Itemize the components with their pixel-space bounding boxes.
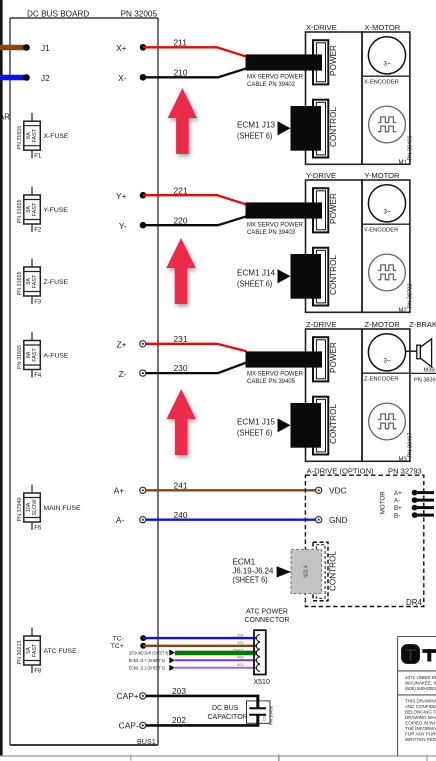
svg-text:CABLE PN 39402: CABLE PN 39402 xyxy=(247,82,296,88)
terminal J1 xyxy=(23,44,30,51)
svg-text:ECM1 J14: ECM1 J14 xyxy=(237,269,275,278)
wire 231 red Z+ xyxy=(146,344,247,351)
svg-text:X-: X- xyxy=(118,73,127,83)
arrow to Z control xyxy=(278,418,291,432)
A control connector dashed xyxy=(313,542,328,601)
svg-text:ECM1 J13: ECM1 J13 xyxy=(237,121,275,130)
svg-text:A-FUSE: A-FUSE xyxy=(44,352,69,359)
svg-text:POWER: POWER xyxy=(329,45,338,76)
svg-text:Y-DRIVE: Y-DRIVE xyxy=(306,171,336,180)
svg-text:PN 31655: PN 31655 xyxy=(17,345,23,369)
svg-text:SLOW: SLOW xyxy=(32,499,38,516)
svg-text:A+: A+ xyxy=(394,490,402,497)
connector X510 body xyxy=(254,630,266,674)
svg-text:FAST: FAST xyxy=(32,348,38,362)
svg-text:Z-DRIVE: Z-DRIVE xyxy=(306,320,336,329)
X-DRIVE box xyxy=(306,32,363,164)
Z CONTROL connector xyxy=(313,397,328,455)
svg-text:3~: 3~ xyxy=(383,209,391,216)
fuse F2 Y-FUSE xyxy=(17,187,68,234)
svg-text:A-DRIVE (OPTION): A-DRIVE (OPTION) xyxy=(307,466,375,475)
svg-text:A-: A- xyxy=(394,498,400,505)
wire 230 black Z- xyxy=(146,363,247,374)
svg-text:FAST: FAST xyxy=(32,643,38,657)
arrow ECM1 J1.7 xyxy=(169,657,175,663)
X encoder divider xyxy=(362,75,410,77)
svg-text:CONTROL: CONTROL xyxy=(329,404,338,444)
svg-text:M3B: M3B xyxy=(424,368,436,374)
svg-text:ECM1 J1.2 (SHEET 5): ECM1 J1.2 (SHEET 5) xyxy=(129,665,166,670)
X-MOTOR box xyxy=(362,32,410,164)
svg-text:DC BUS BOARD: DC BUS BOARD xyxy=(27,10,89,19)
X CONTROL connector xyxy=(313,100,328,158)
svg-text:FAST: FAST xyxy=(32,274,38,288)
arrow to A control xyxy=(277,566,291,577)
svg-text:X-FUSE: X-FUSE xyxy=(44,133,69,140)
Y CONTROL connector xyxy=(313,248,328,306)
motor wire node 3 xyxy=(412,505,418,511)
motor wire 4 xyxy=(415,514,434,517)
zone tick 2 xyxy=(278,755,280,761)
title block frame xyxy=(398,637,436,757)
svg-text:POWER: POWER xyxy=(329,193,338,224)
svg-text:408: 408 xyxy=(237,656,243,660)
svg-text:PN 37949: PN 37949 xyxy=(17,498,23,522)
svg-text:CABLE PN 39405: CABLE PN 39405 xyxy=(247,379,296,385)
Z POWER connector xyxy=(313,337,328,381)
svg-text:PN 38391: PN 38391 xyxy=(414,377,436,383)
wire 221 red Y+ xyxy=(143,195,247,205)
terminal TC+ xyxy=(140,643,146,649)
svg-text:PN 30468: PN 30468 xyxy=(269,705,274,725)
svg-text:PN 32793: PN 32793 xyxy=(388,466,422,475)
svg-text:Y-: Y- xyxy=(119,221,127,231)
motor wire 1 xyxy=(415,491,434,494)
svg-text:Z+: Z+ xyxy=(116,340,126,350)
svg-text:MX SERVO POWER: MX SERVO POWER xyxy=(247,74,304,80)
wire 402 violet xyxy=(175,667,257,669)
svg-text:CONTROL: CONTROL xyxy=(329,551,338,591)
svg-text:230: 230 xyxy=(174,363,188,373)
svg-text:(608) 849-8381 WWW.T: (608) 849-8381 WWW.T xyxy=(405,686,436,691)
Y control cable plug xyxy=(291,254,322,299)
DC BUS BOARD outline xyxy=(10,18,158,745)
terminal X- (solid) xyxy=(140,74,147,81)
red annotation arrow 1 xyxy=(168,88,197,154)
motor wire 3 xyxy=(415,506,434,509)
svg-text:(SHEET 6): (SHEET 6) xyxy=(232,576,268,585)
svg-text:POWER: POWER xyxy=(329,342,338,373)
svg-text:240: 240 xyxy=(174,510,188,520)
svg-text:J2: J2 xyxy=(41,74,50,83)
wire 220 black Y- xyxy=(143,216,247,225)
svg-text:FAST: FAST xyxy=(32,128,38,142)
svg-text:MAIN FUSE: MAIN FUSE xyxy=(44,505,81,512)
svg-text:3~: 3~ xyxy=(383,358,391,365)
svg-text:210: 210 xyxy=(174,67,188,77)
svg-text:402: 402 xyxy=(237,663,243,667)
svg-text:Z-: Z- xyxy=(119,369,127,379)
svg-text:CABLE PN 39403: CABLE PN 39403 xyxy=(247,230,296,236)
svg-text:PN 30213: PN 30213 xyxy=(17,641,23,665)
Y servo power cable xyxy=(246,202,323,218)
wire 205 brown TC+ xyxy=(143,645,256,647)
terminal Z- (ring) xyxy=(140,370,146,376)
X encoder symbol xyxy=(369,106,406,143)
svg-text:GND1: GND1 xyxy=(233,648,244,652)
connector X510 pins xyxy=(256,635,260,672)
terminal TC- xyxy=(140,635,146,641)
svg-text:CAP+: CAP+ xyxy=(117,691,139,701)
Y encoder divider xyxy=(362,223,410,225)
wire J1 brown DC bus input xyxy=(0,45,27,51)
svg-text:Z-MOTOR: Z-MOTOR xyxy=(365,320,401,329)
svg-text:COPIED IN WHOLE OR IN PART, NO: COPIED IN WHOLE OR IN PART, NOR xyxy=(405,721,436,726)
wire 241 brown A+ xyxy=(146,489,315,491)
terminal A+ (ring) xyxy=(140,487,146,493)
svg-text:202: 202 xyxy=(172,715,186,725)
svg-text:ECM1 J1.7 (SHEET 5): ECM1 J1.7 (SHEET 5) xyxy=(129,658,166,663)
Z encoder symbol xyxy=(369,403,406,440)
terminal Z+ (ring) xyxy=(140,341,146,347)
svg-text:CONNECTOR: CONNECTOR xyxy=(245,617,290,624)
svg-text:DC BUS: DC BUS xyxy=(212,705,239,712)
red annotation arrow 2 xyxy=(166,238,195,304)
svg-text:(SHEET 6): (SHEET 6) xyxy=(237,280,273,289)
wire 202 xyxy=(146,724,259,727)
svg-text:211: 211 xyxy=(174,37,188,47)
svg-text:241: 241 xyxy=(174,480,188,490)
wire 408 purple xyxy=(175,659,257,661)
drawing sheet left border bar xyxy=(0,0,3,756)
X control cable plug xyxy=(291,106,322,151)
svg-text:423.4: 423.4 xyxy=(304,565,310,578)
wire 211 red X+ xyxy=(143,47,247,57)
label DC BUS CAPACITOR xyxy=(208,705,248,721)
label ECM1 J14 (SHEET 6) xyxy=(237,269,275,289)
svg-text:Z-FUSE: Z-FUSE xyxy=(44,279,69,286)
svg-text:CONTROL: CONTROL xyxy=(329,255,338,295)
svg-text:Y-MOTOR: Y-MOTOR xyxy=(365,171,401,180)
svg-text:X510: X510 xyxy=(254,679,270,686)
Tormach wordmark T xyxy=(422,649,436,661)
terminal GND (ring) xyxy=(316,517,322,523)
svg-text:B-: B- xyxy=(394,513,400,520)
svg-text:GND: GND xyxy=(329,515,348,525)
label MX SERVO POWER CABLE PN 39402 xyxy=(247,74,304,88)
svg-text:(SHEET 6): (SHEET 6) xyxy=(237,429,273,438)
svg-text:PN 38406: PN 38406 xyxy=(408,136,414,161)
svg-text:Z-BRAKE: Z-BRAKE xyxy=(409,320,436,329)
red annotation arrow 3 xyxy=(167,389,196,455)
svg-text:DRAWING MAY NOT BE REPRODUCED: DRAWING MAY NOT BE REPRODUCED xyxy=(405,715,436,720)
Z-MOTOR box xyxy=(362,329,410,461)
Y POWER connector xyxy=(313,188,328,232)
svg-text:F6: F6 xyxy=(34,526,42,532)
Z encoder divider xyxy=(362,372,410,374)
Z brake divider xyxy=(410,372,436,374)
svg-text:PN 31655: PN 31655 xyxy=(17,126,23,150)
svg-text:204: 204 xyxy=(237,634,243,638)
svg-text:WRITTEN PERMISSION OF TORMACH: WRITTEN PERMISSION OF TORMACH xyxy=(405,737,436,742)
svg-text:X+: X+ xyxy=(116,43,127,53)
svg-text:VDC: VDC xyxy=(329,485,347,495)
svg-text:F4: F4 xyxy=(34,373,42,379)
svg-text:MX SERVO POWER: MX SERVO POWER xyxy=(247,371,304,377)
fuse F8 ATC FUSE xyxy=(17,628,77,675)
svg-text:221: 221 xyxy=(174,185,188,195)
svg-text:F8: F8 xyxy=(34,669,42,675)
title block legal text xyxy=(405,699,436,743)
svg-text:PN 31655: PN 31655 xyxy=(17,272,23,296)
svg-text:F1: F1 xyxy=(34,154,42,160)
Tormach logo squircle xyxy=(401,644,420,664)
svg-text:231: 231 xyxy=(174,334,188,344)
Y-DRIVE box xyxy=(306,180,363,312)
svg-text:Y+: Y+ xyxy=(116,191,127,201)
Z servo power cable xyxy=(246,351,323,367)
svg-text:3~: 3~ xyxy=(383,61,391,68)
motor M1 circle xyxy=(368,37,405,74)
arrow ground bar xyxy=(169,649,175,655)
terminal CAP+ (ring) xyxy=(140,693,146,699)
terminal Y- (solid) xyxy=(140,222,147,229)
title block address xyxy=(405,675,436,691)
svg-text:M1: M1 xyxy=(399,160,408,166)
svg-text:ATC POWER: ATC POWER xyxy=(246,609,288,616)
svg-text:205: 205 xyxy=(237,641,243,645)
svg-text:CONTROL: CONTROL xyxy=(329,107,338,147)
svg-text:TC+: TC+ xyxy=(111,643,124,650)
wire J2 blue DC bus input xyxy=(0,75,27,81)
svg-text:F2: F2 xyxy=(34,228,42,234)
fuse F1 X-FUSE xyxy=(17,113,69,160)
svg-text:GROUND BAR (SHEET 8): GROUND BAR (SHEET 8) xyxy=(129,650,169,655)
zone tick 3 xyxy=(426,755,428,761)
wire 210 black X- xyxy=(143,68,247,77)
motor M2 circle xyxy=(368,185,405,222)
svg-text:PN 32005: PN 32005 xyxy=(121,10,158,19)
svg-text:B+: B+ xyxy=(394,505,402,512)
svg-text:X-DRIVE: X-DRIVE xyxy=(306,23,337,32)
svg-text:M2: M2 xyxy=(399,308,408,314)
capacitor C1 xyxy=(247,695,271,727)
svg-text:BUS1: BUS1 xyxy=(137,737,156,746)
svg-text:Y-FUSE: Y-FUSE xyxy=(44,207,69,214)
svg-text:220: 220 xyxy=(174,215,188,225)
Z-DRIVE box xyxy=(306,329,363,461)
svg-text:AND CONFIDENTIAL INFORMATION: AND CONFIDENTIAL INFORMATION xyxy=(405,704,436,709)
A-DRIVE dashed box xyxy=(305,475,423,606)
label ECM1 J15 (SHEET 6) xyxy=(237,418,275,438)
terminal CAP- (ring) xyxy=(140,722,146,728)
svg-text:FOR ANY PURPOSE WITHOUT THE: FOR ANY PURPOSE WITHOUT THE xyxy=(405,732,436,737)
A control grey plug xyxy=(291,549,322,593)
X POWER connector xyxy=(313,40,328,84)
svg-text:ECM1 J15: ECM1 J15 xyxy=(237,418,275,427)
svg-text:BELONGING TO TORMACH INC. THIS: BELONGING TO TORMACH INC. THIS xyxy=(405,710,436,715)
svg-text:PN 38407: PN 38407 xyxy=(408,433,414,458)
svg-text:A+: A+ xyxy=(114,486,125,496)
wire 204 blue TC- xyxy=(143,637,256,639)
svg-text:X-ENCODER: X-ENCODER xyxy=(364,80,399,86)
label MX SERVO POWER CABLE PN 39403 xyxy=(247,222,304,236)
Z brake symbol xyxy=(417,339,432,367)
svg-text:ECM1: ECM1 xyxy=(232,558,255,567)
Y-MOTOR box xyxy=(362,180,410,312)
fuse F4 A-FUSE xyxy=(17,332,69,379)
svg-text:DR4: DR4 xyxy=(406,598,423,607)
svg-text:TC-: TC- xyxy=(112,635,123,642)
motor M3 circle xyxy=(368,334,405,371)
arrow to Y control xyxy=(278,269,291,283)
svg-text:1071 UNIEK DR, PO BOX: 1071 UNIEK DR, PO BOX xyxy=(405,675,436,680)
motor wire node 1 xyxy=(412,490,418,496)
label MX SERVO POWER CABLE PN 39405 xyxy=(247,371,304,385)
wire 240 blue A- xyxy=(146,519,315,521)
svg-text:J1: J1 xyxy=(41,44,50,53)
fuse F6 MAIN FUSE xyxy=(17,485,81,532)
terminal A- (ring) xyxy=(140,517,146,523)
wire 203 xyxy=(146,695,259,698)
fuse F3 Z-FUSE xyxy=(17,259,68,306)
motor wire node 4 xyxy=(412,512,418,518)
svg-text:FAST: FAST xyxy=(32,202,38,216)
svg-text:F3: F3 xyxy=(34,300,42,306)
svg-text:AR: AR xyxy=(0,113,10,122)
svg-text:WAUNAKEE, WI 53597: WAUNAKEE, WI 53597 xyxy=(405,680,436,685)
svg-text:Z-ENCODER: Z-ENCODER xyxy=(364,377,398,383)
svg-text:CAPACITOR: CAPACITOR xyxy=(208,714,248,721)
svg-text:Y-ENCODER: Y-ENCODER xyxy=(364,228,398,234)
terminal Y+ (solid) xyxy=(140,192,147,199)
wire motor to brake xyxy=(406,350,417,352)
motor wire 2 xyxy=(415,499,434,502)
svg-text:A-: A- xyxy=(116,515,125,525)
svg-text:PN 31655: PN 31655 xyxy=(17,200,23,224)
wire GND1 green xyxy=(175,651,257,656)
svg-text:(SHEET 6): (SHEET 6) xyxy=(237,132,273,141)
X servo power cable xyxy=(246,54,323,70)
motor wire node 2 xyxy=(412,497,418,503)
svg-text:X-MOTOR: X-MOTOR xyxy=(365,23,401,32)
terminal VDC (ring) xyxy=(316,487,322,493)
terminal X+ (solid) xyxy=(140,44,147,51)
svg-text:THIS DRAWING CONTAINS PROPRIET: THIS DRAWING CONTAINS PROPRIETARY xyxy=(405,699,436,704)
svg-text:203: 203 xyxy=(172,686,186,696)
drawing sheet bottom border line xyxy=(0,755,436,757)
svg-text:J6.19-J6.24: J6.19-J6.24 xyxy=(232,567,273,576)
svg-text:MX SERVO POWER: MX SERVO POWER xyxy=(247,222,304,228)
zone tick 1 xyxy=(130,755,132,761)
svg-text:ATC FUSE: ATC FUSE xyxy=(44,648,78,655)
Z control cable plug xyxy=(291,403,322,448)
terminal J2 xyxy=(23,74,30,81)
svg-text:THE INFORMATION IN IT BE USED: THE INFORMATION IN IT BE USED xyxy=(405,726,436,731)
svg-text:M3: M3 xyxy=(399,457,408,463)
label ATC POWER CONNECTOR xyxy=(245,609,290,625)
arrow to X control xyxy=(278,121,291,135)
svg-text:MOTOR: MOTOR xyxy=(379,491,386,514)
label ECM1 J6.19-J6.24 (SHEET 6) xyxy=(232,558,273,585)
Y encoder symbol xyxy=(369,254,406,291)
arrow ECM1 J1.2 xyxy=(169,665,175,671)
svg-text:PN 38702: PN 38702 xyxy=(408,284,414,309)
label ECM1 J13 (SHEET 6) xyxy=(237,121,275,141)
svg-text:CAP-: CAP- xyxy=(119,720,139,730)
svg-text:C1: C1 xyxy=(262,715,267,721)
